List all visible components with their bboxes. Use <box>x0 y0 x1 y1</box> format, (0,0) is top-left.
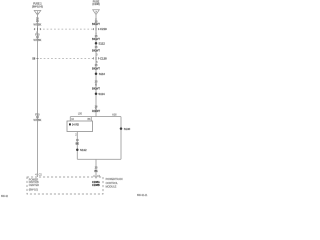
relay internal contact block <box>69 123 71 125</box>
svg-text:WT/BK: WT/BK <box>33 39 41 42</box>
wire label right 2 <box>92 35 100 41</box>
svg-text:3: 3 <box>96 54 98 57</box>
pin label 4 C2 at PDC entry <box>35 173 42 176</box>
wire label left mid <box>33 33 41 42</box>
svg-text:B6: B6 <box>87 118 91 121</box>
svg-text:CENTER: CENTER <box>29 184 39 187</box>
wire label right 4 <box>92 64 100 70</box>
wire drop to relay pin B6 <box>90 117 92 121</box>
pin labels at PCM entry <box>93 175 101 178</box>
wire label left upper <box>33 18 41 27</box>
wire dashed connector line C108 <box>40 57 93 59</box>
svg-text:S112: S112 <box>99 42 106 46</box>
connector C100 in-line symbol on left wire <box>34 28 41 31</box>
connector A2 page arrow (right triangle) <box>93 10 100 15</box>
svg-text:G: G <box>95 84 97 87</box>
svg-text:BK/WT: BK/WT <box>92 67 100 70</box>
svg-text:L50: L50 <box>78 112 83 115</box>
splice S114 dot <box>95 92 98 95</box>
connector tick on left wire at C108 row <box>36 57 38 59</box>
splice S132 dot <box>76 149 79 152</box>
svg-text:BK/WT: BK/WT <box>92 87 100 90</box>
svg-text:BK: BK <box>94 170 98 173</box>
wire label right upper <box>92 18 100 26</box>
connector C138 in-line symbol on right wire <box>93 57 99 60</box>
wire drop to PCM <box>95 159 97 178</box>
connector C219 in-line symbol on right wire <box>93 28 99 31</box>
component label POWERTRAIN CONTROL MODULE <box>106 178 123 189</box>
svg-text:BK/WT: BK/WT <box>92 50 100 53</box>
splice S112 dot <box>95 42 98 45</box>
svg-text:(8W-10-8): (8W-10-8) <box>32 6 43 9</box>
wire label left lower <box>33 114 41 122</box>
splice S110 dot <box>95 72 98 75</box>
wire right main vertical <box>95 15 97 117</box>
svg-text:14 RD: 14 RD <box>72 124 79 127</box>
svg-text:A16: A16 <box>112 113 117 116</box>
svg-text:(C208): (C208) <box>92 3 100 6</box>
svg-text:S110: S110 <box>99 72 106 76</box>
svg-text:POWERTRAIN: POWERTRAIN <box>106 178 123 181</box>
wire dashed connector line C100 <box>43 28 92 30</box>
PCM interior connector blocks <box>92 181 100 187</box>
node F-left fuse feed label <box>32 2 43 8</box>
wire label PCM feed <box>94 166 98 173</box>
svg-text:10: 10 <box>71 118 74 121</box>
wire horizontal distribution at y116.6 <box>70 116 121 118</box>
relay box U1 <box>67 121 93 132</box>
svg-text:CONTROL: CONTROL <box>106 182 119 185</box>
PDC dashed box <box>27 177 103 194</box>
svg-text:8W-42-11: 8W-42-11 <box>137 194 148 197</box>
svg-text:8W-42: 8W-42 <box>1 195 9 198</box>
svg-text:S132: S132 <box>80 148 87 152</box>
wire label right 6 <box>92 105 101 113</box>
wire left main vertical <box>37 15 39 177</box>
wire bottom bus horizontal <box>77 158 121 160</box>
wire right branch vertical x121 <box>120 117 122 160</box>
svg-text:S8: S8 <box>32 58 36 61</box>
svg-text:4: 4 <box>35 173 37 176</box>
svg-text:S114: S114 <box>98 92 105 96</box>
svg-text:BK/WT: BK/WT <box>92 23 100 26</box>
svg-text:C168B: C168B <box>92 184 100 187</box>
wire drop to relay pin 10 <box>69 117 71 121</box>
svg-text:C2: C2 <box>39 173 43 176</box>
svg-text:WT/BK: WT/BK <box>33 119 41 122</box>
svg-text:WT/BK: WT/BK <box>33 23 41 26</box>
wire label below relay <box>76 139 80 145</box>
splice S130 dot <box>120 127 123 130</box>
svg-text:MODULE: MODULE <box>106 186 117 189</box>
wire label right 5 <box>92 81 100 91</box>
svg-text:C219: C219 <box>100 27 107 31</box>
svg-text:C138: C138 <box>100 57 107 61</box>
wire label right 3 <box>92 46 100 52</box>
svg-text:BK: BK <box>76 142 80 145</box>
svg-text:(8W-10): (8W-10) <box>29 188 38 191</box>
svg-text:4: 4 <box>93 175 95 178</box>
svg-text:BK/WT: BK/WT <box>92 38 100 41</box>
PDC interior label <box>29 178 39 191</box>
wire relay bottom pin drop <box>76 132 78 160</box>
connector A1 page arrow (left triangle) <box>34 11 41 16</box>
svg-text:RD/WT: RD/WT <box>92 110 101 113</box>
node F-right fuse feed label <box>92 1 100 7</box>
svg-text:S130: S130 <box>124 127 131 131</box>
